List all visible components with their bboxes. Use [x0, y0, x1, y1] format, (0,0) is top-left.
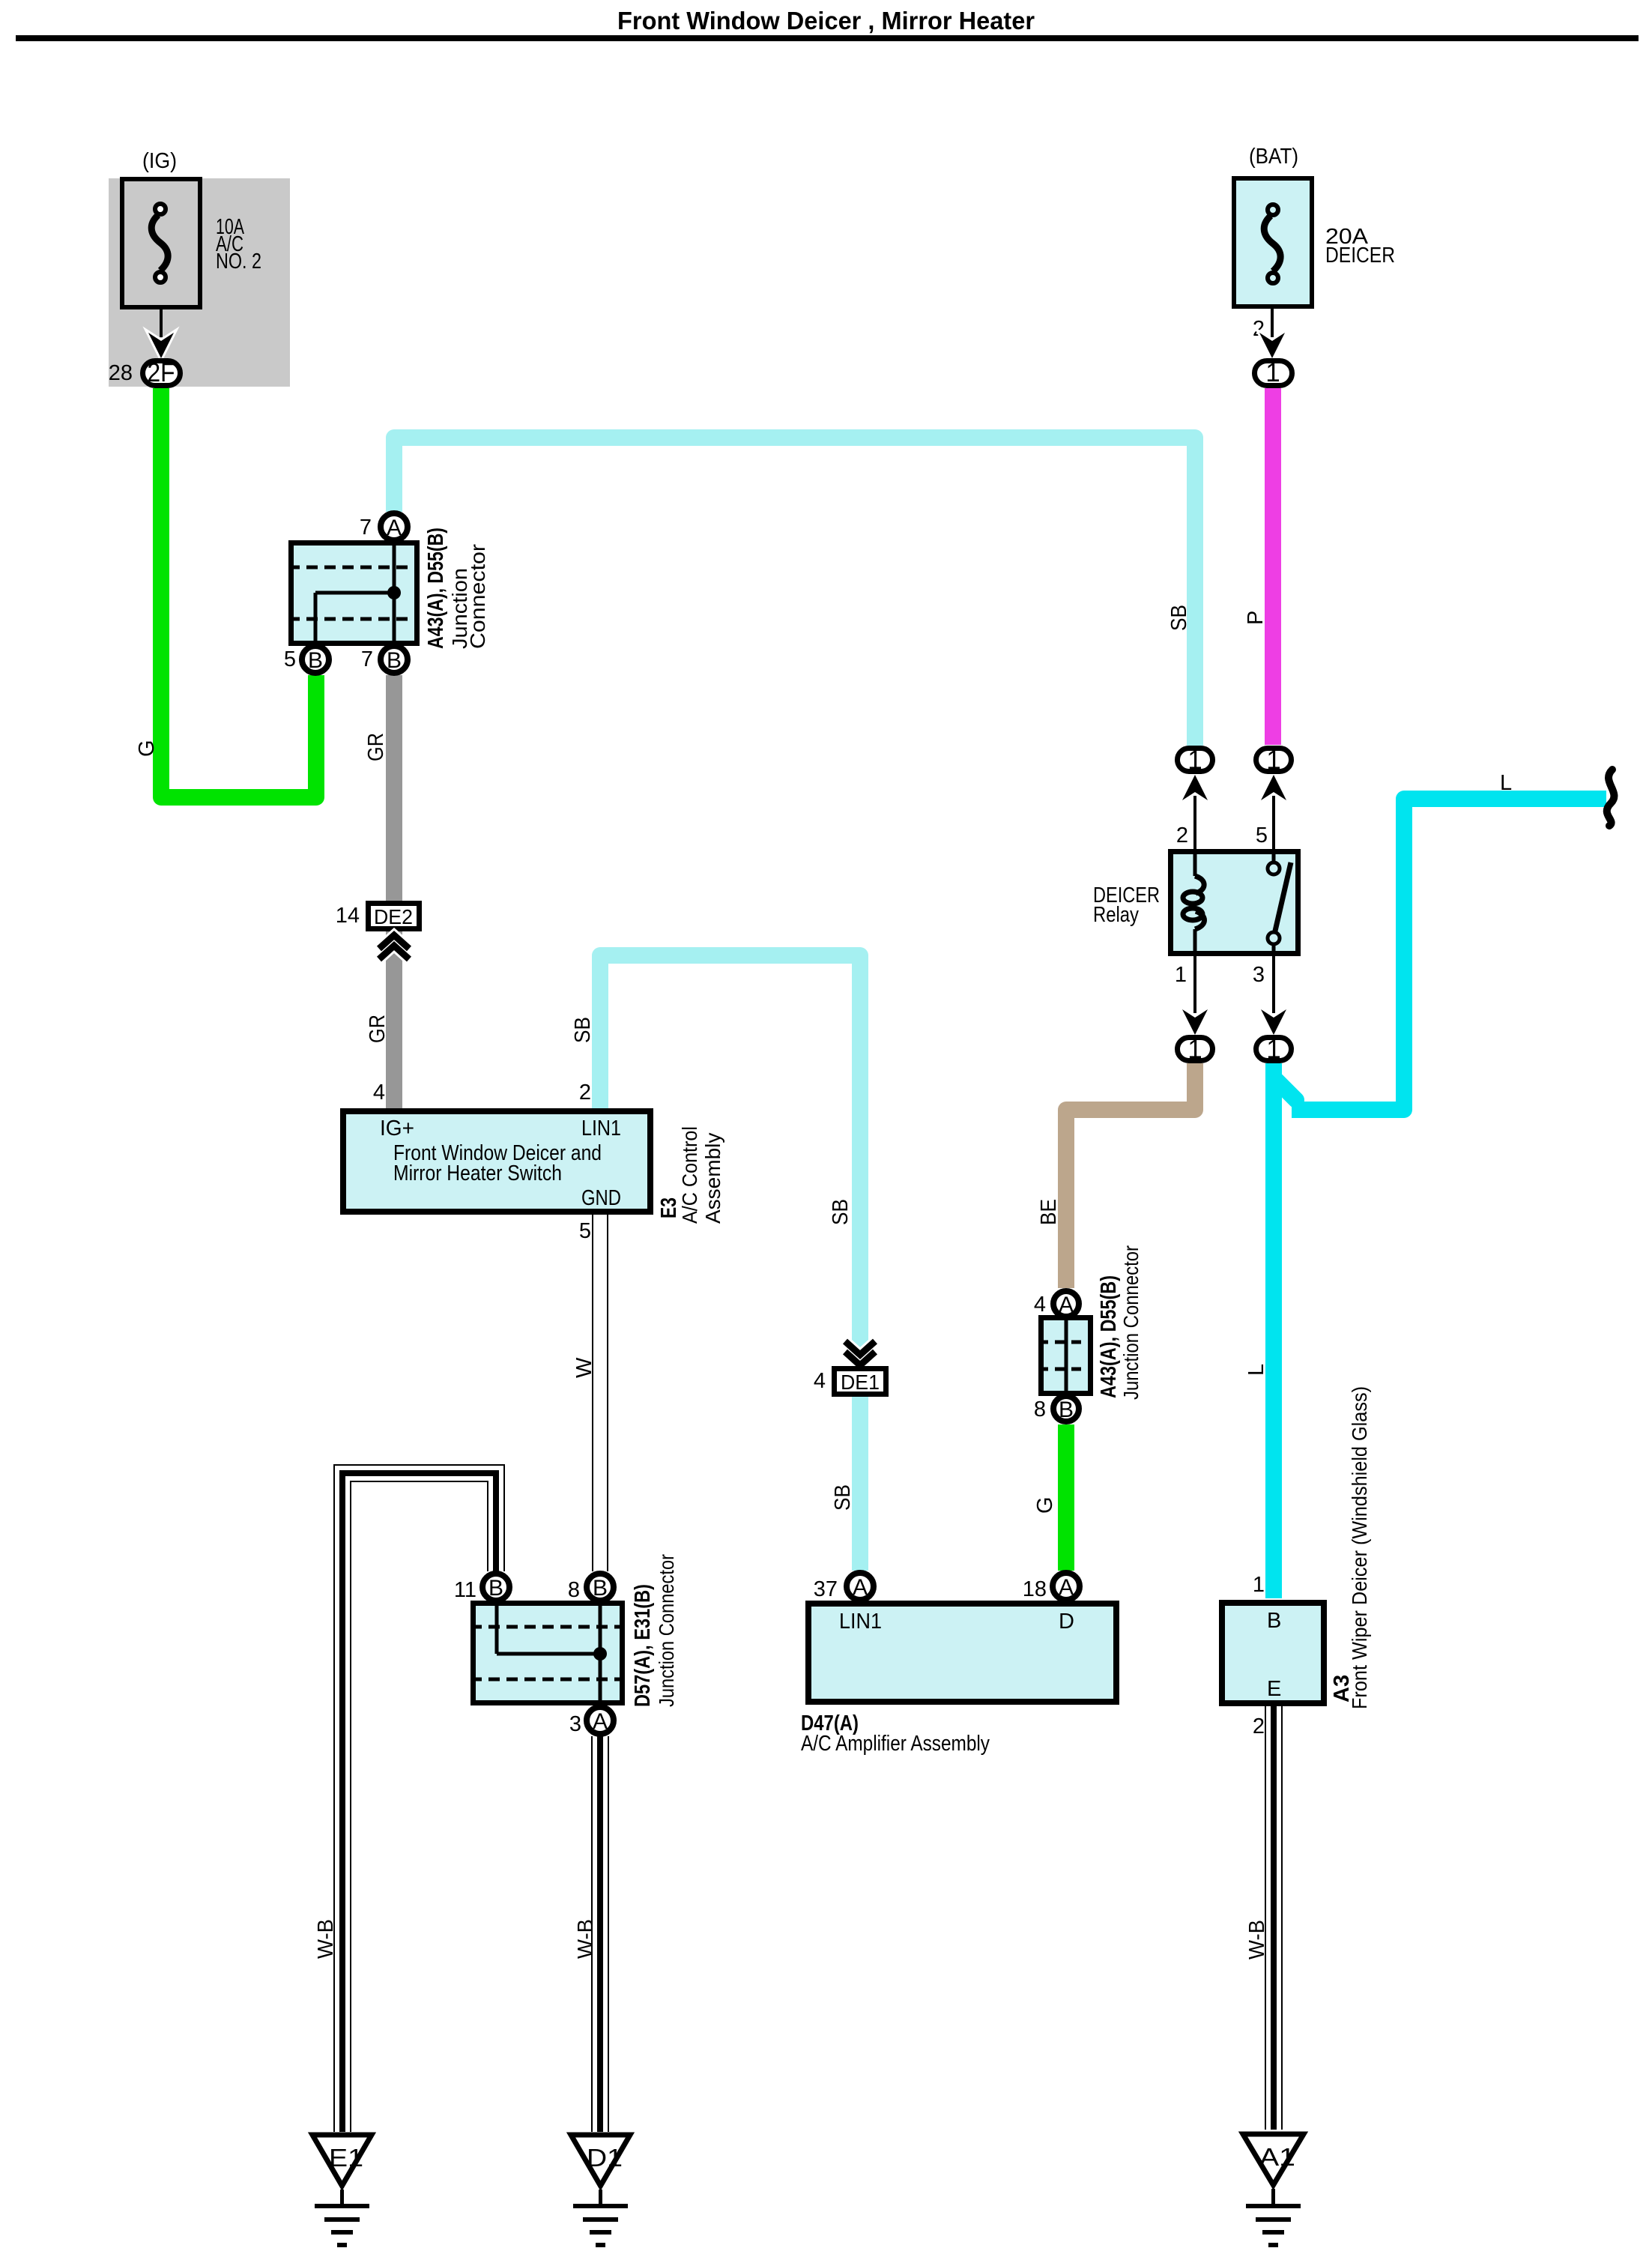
svg-text:4: 4 — [373, 1081, 385, 1105]
svg-text:SB: SB — [571, 1017, 595, 1043]
svg-text:2: 2 — [579, 1081, 591, 1105]
fuse F1 10A A/C NO.2 (IG) — [122, 179, 200, 307]
svg-text:L: L — [1500, 771, 1512, 795]
svg-text:IG+: IG+ — [380, 1117, 414, 1140]
svg-text:E1: E1 — [329, 2144, 363, 2172]
svg-text:Junction Connector: Junction Connector — [1119, 1245, 1143, 1400]
ground E1 — [312, 2135, 372, 2245]
junction connector A43(A),D55(B) top — [288, 540, 420, 646]
svg-text:1: 1 — [1265, 358, 1280, 387]
svg-text:E: E — [1267, 1677, 1281, 1701]
wire W-B: junction A(3) down to ground D1 — [591, 1736, 609, 2132]
svg-text:14: 14 — [336, 904, 360, 928]
svg-text:G: G — [1033, 1496, 1057, 1514]
wire L cyan: relay pin3 oval down to A3 pin B — [1265, 1063, 1282, 1598]
pin circle B(7) — [381, 646, 408, 673]
svg-text:A: A — [1059, 1293, 1074, 1317]
relay DEICER Relay — [1171, 849, 1298, 956]
svg-text:Assembly: Assembly — [701, 1133, 724, 1224]
pin circle A(37) — [847, 1573, 874, 1600]
svg-text:(IG): (IG) — [142, 149, 177, 173]
pin circle B(8) D57 — [587, 1574, 614, 1601]
svg-text:1: 1 — [1175, 963, 1187, 987]
svg-text:B: B — [308, 648, 323, 673]
svg-text:Connector: Connector — [466, 544, 489, 649]
wire G green: junction B(8) to amplifier pin 18 — [1058, 1424, 1074, 1571]
svg-text:2F: 2F — [148, 358, 175, 387]
svg-text:SB: SB — [831, 1484, 855, 1511]
svg-text:5: 5 — [579, 1219, 591, 1243]
svg-text:5: 5 — [1256, 824, 1268, 847]
fuse panel (IG) gray block — [109, 178, 290, 387]
svg-text:2: 2 — [1176, 824, 1188, 847]
svg-text:28: 28 — [109, 361, 133, 385]
pin circle A(7) — [381, 513, 408, 540]
svg-text:37: 37 — [814, 1577, 838, 1601]
svg-text:GR: GR — [364, 733, 388, 761]
svg-text:1: 1 — [1266, 746, 1280, 775]
switch E3 Front Window Deicer and Mirror Heater Switch — [343, 1111, 650, 1212]
svg-text:11: 11 — [454, 1578, 476, 1602]
ground A1 — [1243, 2134, 1304, 2245]
label DEICER Relay — [1093, 883, 1160, 927]
svg-text:D1: D1 — [587, 2144, 623, 2172]
svg-text:GND: GND — [581, 1186, 621, 1210]
title rule — [16, 35, 1639, 41]
svg-text:2: 2 — [1253, 1714, 1265, 1738]
relay pin lines and arrows — [1182, 775, 1286, 1035]
svg-text:Front Window Deicer , Mirror H: Front Window Deicer , Mirror Heater — [617, 7, 1035, 34]
svg-text:18: 18 — [1023, 1577, 1047, 1601]
svg-text:4: 4 — [814, 1369, 826, 1393]
svg-text:A43(A), D55(B): A43(A), D55(B) — [424, 528, 448, 649]
wire GR: junction B(7) down to E3 pin 4 — [386, 675, 402, 1108]
connector oval 2F — [143, 358, 181, 387]
arrow from fuse to oval 1 — [1259, 309, 1285, 358]
svg-text:A: A — [853, 1575, 868, 1600]
svg-text:W-B: W-B — [314, 1919, 338, 1959]
svg-text:DE1: DE1 — [841, 1371, 880, 1394]
svg-text:A: A — [1059, 1575, 1074, 1600]
ground D1 — [571, 2135, 630, 2245]
svg-text:A43(A), D55(B): A43(A), D55(B) — [1097, 1275, 1121, 1398]
A3 Front Wiper Deicer box — [1222, 1603, 1324, 1703]
connector DE1 — [835, 1341, 886, 1395]
junction connector A43(A),D55(B) small — [1038, 1315, 1093, 1396]
arrow from fuse to 2F — [148, 309, 174, 358]
svg-text:(BAT): (BAT) — [1249, 145, 1298, 169]
svg-text:B: B — [1267, 1609, 1281, 1633]
svg-text:W-B: W-B — [574, 1919, 598, 1959]
label A/C Control Assembly — [678, 1126, 724, 1224]
pin circle B(5) — [302, 646, 329, 673]
svg-text:DEICER: DEICER — [1325, 244, 1395, 268]
wire SB: junction A(7) up and right to relay pin2 oval — [394, 438, 1195, 746]
wire W-B: A3 pin E down to ground A1 — [1265, 1706, 1283, 2130]
svg-text:7: 7 — [360, 516, 372, 540]
wire W-B: junction B(11) loop left down to ground E1 — [342, 1473, 496, 2132]
svg-text:W-B: W-B — [1245, 1920, 1269, 1960]
svg-text:GR: GR — [366, 1015, 390, 1043]
pin circle A(3) — [587, 1707, 614, 1734]
svg-text:1: 1 — [1187, 746, 1202, 775]
svg-text:W: W — [572, 1357, 596, 1378]
svg-text:P: P — [1244, 611, 1268, 625]
svg-text:G: G — [135, 740, 159, 757]
svg-text:LIN1: LIN1 — [581, 1117, 621, 1140]
wire cut squiggle — [1607, 770, 1615, 826]
svg-text:D57(A), E31(B): D57(A), E31(B) — [631, 1584, 655, 1707]
svg-text:3: 3 — [569, 1712, 581, 1736]
svg-text:D: D — [1059, 1610, 1074, 1634]
svg-text:Junction Connector: Junction Connector — [655, 1554, 678, 1707]
junction connector D57(A),E31(B) — [471, 1601, 625, 1705]
svg-text:A: A — [593, 1709, 608, 1734]
svg-text:L: L — [1244, 1364, 1268, 1376]
connector oval 1 (battery feed) — [1255, 358, 1292, 387]
svg-text:A: A — [387, 516, 402, 540]
wire L branch: horizontal right, up, and out to cut mark — [1292, 799, 1606, 1110]
svg-text:8: 8 — [568, 1578, 580, 1602]
svg-text:3: 3 — [1253, 963, 1265, 987]
svg-text:A/C Amplifier Assembly: A/C Amplifier Assembly — [801, 1732, 990, 1756]
svg-text:B: B — [593, 1576, 608, 1601]
wire W white: E3 GND to junction B(8) — [592, 1215, 608, 1571]
svg-text:1: 1 — [1266, 1035, 1280, 1064]
pin circle B(8) — [1053, 1396, 1079, 1422]
svg-text:A/C Control: A/C Control — [678, 1126, 701, 1224]
svg-text:4: 4 — [1034, 1293, 1046, 1317]
svg-text:8: 8 — [1034, 1398, 1046, 1421]
svg-text:5: 5 — [284, 647, 296, 671]
fuse F2 20A DEICER (BAT) — [1234, 178, 1312, 306]
wire G green: 2F to junction B(5) — [161, 388, 316, 797]
A/C amplifier assembly D47(A) — [808, 1604, 1116, 1702]
svg-text:SB: SB — [1167, 605, 1191, 631]
svg-text:Relay: Relay — [1093, 903, 1139, 927]
svg-text:NO. 2: NO. 2 — [216, 250, 261, 274]
svg-text:LIN1: LIN1 — [839, 1610, 882, 1634]
pin circle A(4) — [1053, 1291, 1079, 1317]
wire P magenta: DEICER fuse to relay pin5 oval — [1265, 388, 1281, 745]
svg-text:Front Wiper Deicer (Windshield: Front Wiper Deicer (Windshield Glass) — [1348, 1386, 1371, 1709]
svg-text:BE: BE — [1037, 1199, 1061, 1225]
svg-text:A1: A1 — [1259, 2143, 1295, 2171]
wire BE tan: relay pin1 oval to junction A(4) — [1066, 1063, 1195, 1288]
svg-text:B: B — [387, 648, 402, 673]
svg-text:DE2: DE2 — [374, 905, 413, 928]
connector oval 1 (relay pin2 top left) — [1178, 746, 1213, 775]
svg-text:1: 1 — [1187, 1035, 1202, 1064]
svg-text:SB: SB — [829, 1199, 853, 1225]
connector oval 1 (relay pin3 bottom right) — [1256, 1035, 1292, 1064]
pin circle B(11) — [482, 1574, 509, 1601]
wire L branch diagonal — [1277, 1081, 1296, 1100]
svg-text:7: 7 — [361, 647, 373, 671]
svg-text:Mirror Heater Switch: Mirror Heater Switch — [393, 1161, 562, 1185]
svg-text:1: 1 — [1253, 1573, 1265, 1597]
connector oval 1 (relay pin5 top right) — [1256, 746, 1292, 775]
connector DE2 — [369, 904, 420, 960]
connector oval 1 (relay pin1 bottom left) — [1178, 1035, 1213, 1064]
label Junction Connector top junction — [448, 544, 489, 649]
wire SB: E3 LIN1 over to DE1 and down to amplifier pin 37 — [600, 955, 860, 1571]
pin circle A(18) — [1053, 1573, 1080, 1600]
svg-text:B: B — [488, 1576, 503, 1601]
svg-text:B: B — [1059, 1398, 1074, 1422]
